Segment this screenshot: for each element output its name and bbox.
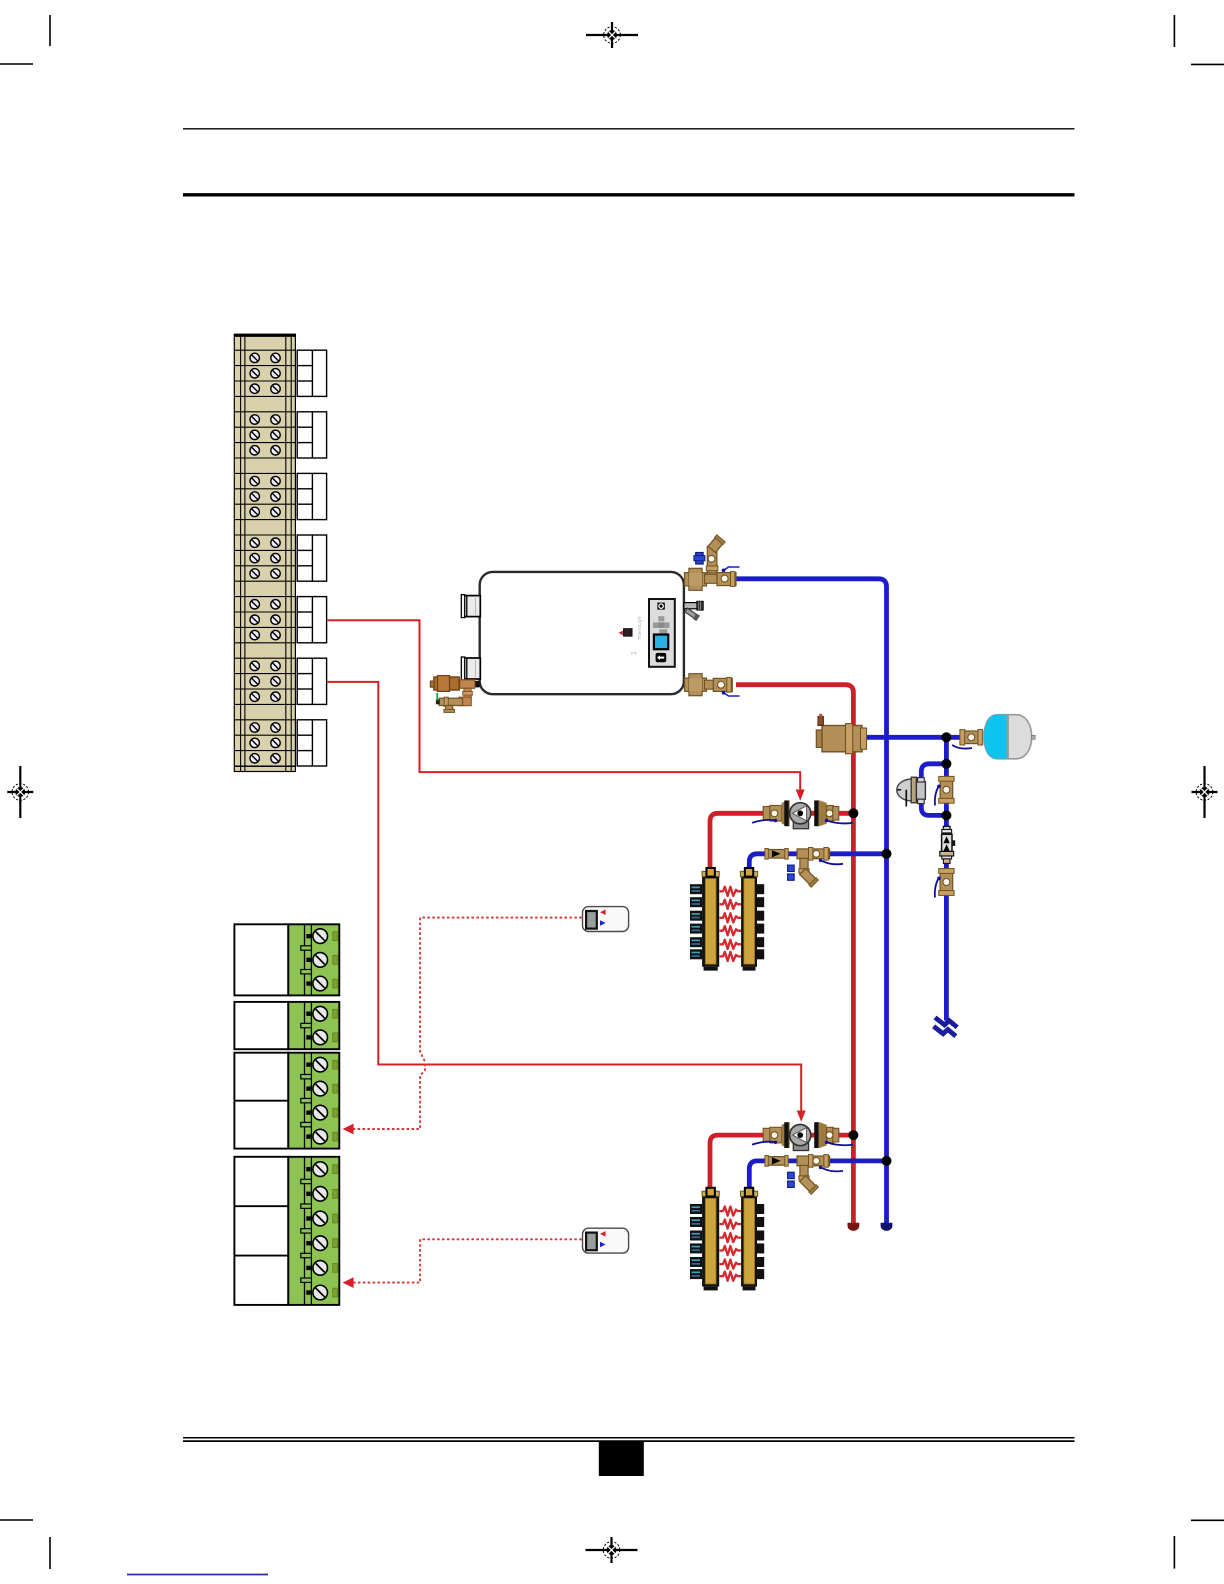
svg-text:FT: FT (631, 651, 637, 656)
svg-text:ThermUp®: ThermUp® (636, 616, 643, 640)
